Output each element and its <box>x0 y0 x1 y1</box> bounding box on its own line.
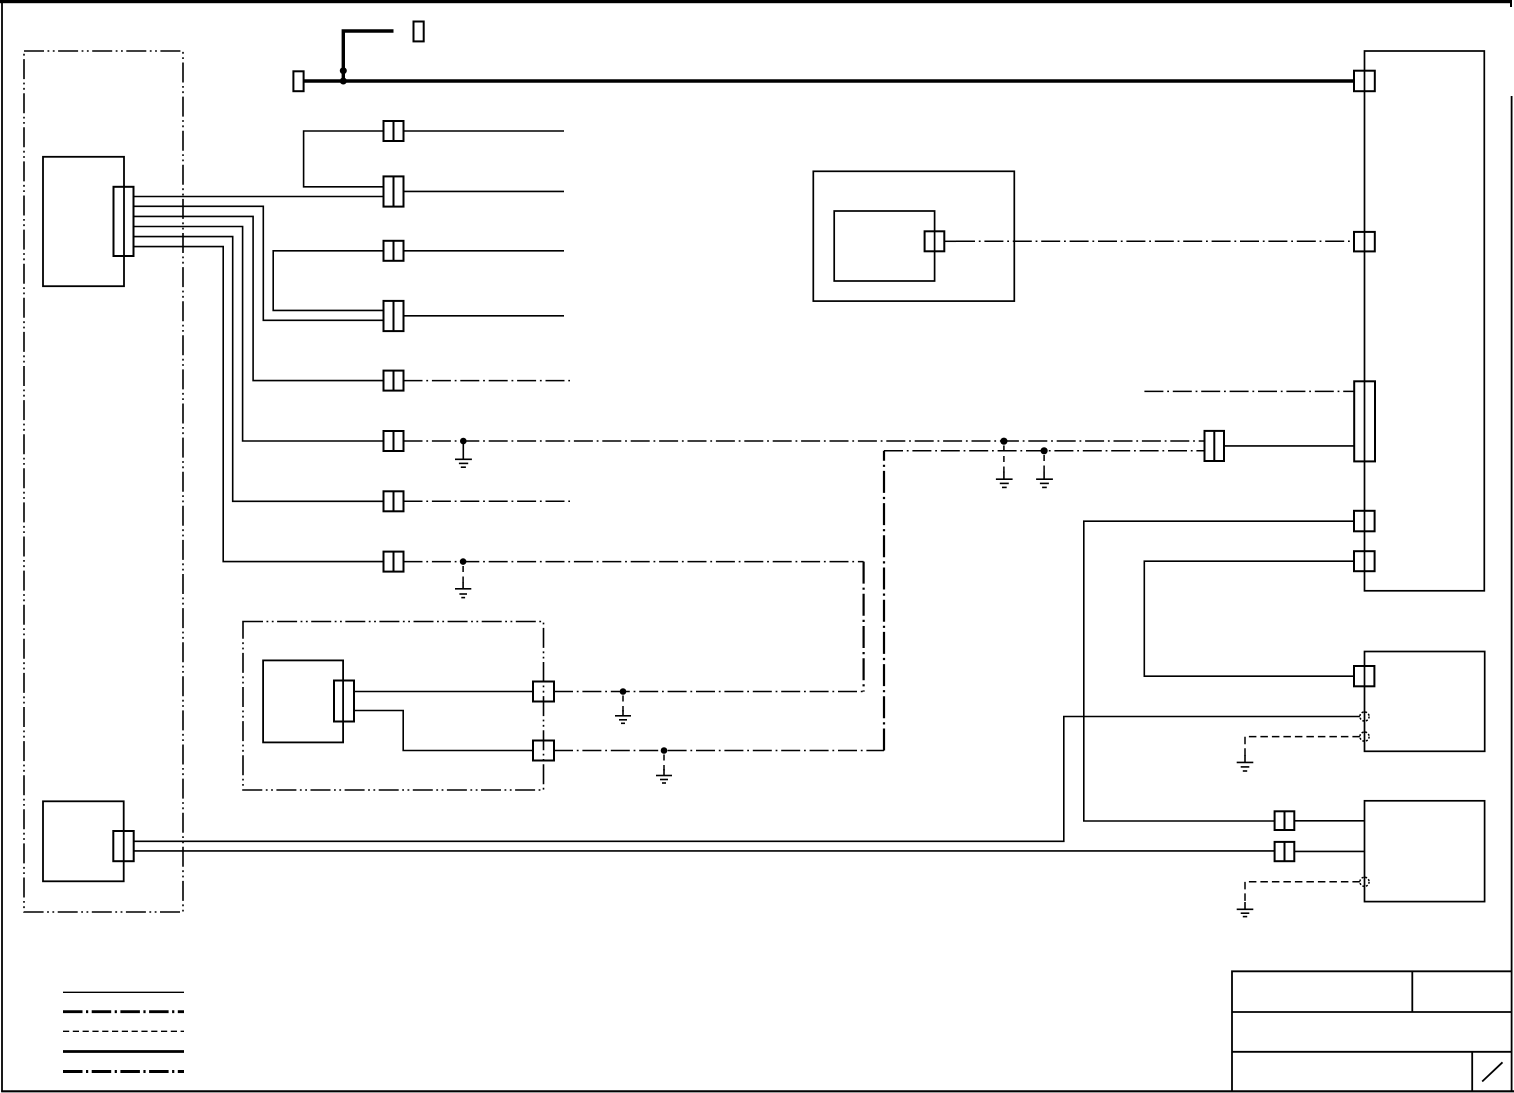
wire D-a ground lead (dashed) <box>1245 882 1360 904</box>
connector C9 <box>533 682 554 702</box>
connector D2 <box>1275 842 1295 861</box>
ground G7 <box>1237 755 1254 771</box>
legend dash-dot heavy sample <box>63 1010 184 1013</box>
legend dash-dot heavy sample 2 <box>63 1070 184 1073</box>
connector C2 <box>384 176 404 206</box>
wire D2 to box D <box>1294 850 1364 852</box>
terminal circle D-a <box>1360 877 1369 886</box>
title block diagonal slash <box>1482 1062 1502 1081</box>
wire M1 to box B (shield line) <box>956 240 1354 242</box>
wire U2 pin1 to C9 <box>354 691 533 693</box>
wire D1 to box D <box>1294 820 1364 822</box>
wire C-a to bottom-left unit <box>134 717 1360 842</box>
title block divider top row <box>1411 971 1413 1012</box>
wire C7 right stub (shield line) <box>404 500 571 502</box>
frame bottom border <box>1 1090 1514 1092</box>
wire J3 to CT tall connector <box>1224 445 1354 447</box>
wire C3 right stub <box>404 250 565 252</box>
legend solid thin sample <box>63 991 184 993</box>
node on C10 line <box>661 747 668 754</box>
connector CB1 (battery feed) <box>1354 71 1375 92</box>
connector CB3 <box>1354 511 1375 532</box>
title block outline <box>1232 971 1512 1091</box>
junction dot upper <box>340 67 347 74</box>
enclosure (dash-dot-dot box, sensor assembly) <box>243 622 544 791</box>
wire loop C1 to C2 <box>304 131 384 187</box>
title block divider bottom row <box>1471 1052 1473 1092</box>
legend solid thick sample <box>63 1050 184 1053</box>
wire bottom-left unit to D2 <box>134 850 1275 852</box>
wire C10 shield line to corner <box>554 750 884 752</box>
ground G2 (dashed lead) <box>455 566 471 598</box>
frame top border <box>0 0 1512 3</box>
connector on unit E <box>113 831 133 861</box>
connector CB4 <box>1354 551 1375 571</box>
wire U1 pin3 to C5 <box>134 216 384 380</box>
wire U1 pin2 to C4 <box>134 206 384 320</box>
connector on U1 <box>114 187 134 256</box>
speaker unit C <box>1365 652 1485 752</box>
connector C3 <box>384 241 404 261</box>
wire antenna shield line into CT <box>1144 390 1354 392</box>
wire U1 pin6 to C8 <box>134 247 384 562</box>
module M1 outer case <box>813 171 1014 301</box>
node on J3 lower line <box>1041 447 1048 454</box>
wire loop C3 to C4 <box>273 251 383 311</box>
node on C8 line <box>460 558 467 565</box>
frame right border <box>1511 96 1513 1091</box>
wire U1 pin5 to C7 <box>134 237 384 502</box>
wire C4 right stub <box>404 315 565 317</box>
SECTION: title block <box>1232 971 1512 1091</box>
connector CT (tall, shield+signal) <box>1354 381 1375 461</box>
node on J3 upper line <box>1000 438 1007 445</box>
title block row line 2 <box>1232 1051 1512 1053</box>
ground G1 <box>455 444 472 467</box>
wire CB4 to CC1 (down left loop) <box>1144 561 1354 676</box>
wire J3 lower shield line <box>884 450 1205 452</box>
connector CB2 (from module M1) <box>1354 232 1375 252</box>
wire C9 shield line to corner join <box>554 691 864 693</box>
ground G8 <box>1237 902 1254 917</box>
connector C6 <box>384 431 404 451</box>
terminal T2 <box>414 22 424 42</box>
connector C1 <box>384 121 404 141</box>
wire C2 right stub <box>404 190 565 192</box>
connector C7 <box>384 491 404 511</box>
wire battery bus (thick) <box>304 79 1355 82</box>
wire C-b ground lead (dashed) <box>1245 737 1360 757</box>
legend dashed sample <box>63 1030 184 1032</box>
connector C4 <box>384 301 404 331</box>
frame left border <box>1 3 3 1092</box>
wire CB3 to connector D1 (down left loop) <box>1084 521 1354 821</box>
terminal circle C-b <box>1360 732 1369 741</box>
ground G3 (dashed lead) <box>615 696 631 724</box>
terminal T1 <box>293 71 303 91</box>
node on C9 line <box>620 688 627 695</box>
wire C8 shield line to corner <box>404 561 864 563</box>
speaker unit D <box>1365 801 1485 902</box>
wire C1 right stub <box>404 130 565 132</box>
sensor unit U2 <box>263 660 343 742</box>
audio unit B <box>1365 51 1485 591</box>
connector J3 <box>1205 431 1225 461</box>
connector C10 <box>533 741 554 761</box>
connector C8 <box>384 552 404 572</box>
ground G4 (dashed lead) <box>996 446 1013 488</box>
wire U1 pin1 to C2 <box>134 196 384 198</box>
terminal circle C-a <box>1360 712 1369 721</box>
connector D1 <box>1275 811 1295 830</box>
wire fuse branch (thick) <box>343 31 393 81</box>
ground G6 (dashed lead) <box>656 755 672 784</box>
connector C5 <box>384 371 404 391</box>
frame top-right tick <box>1510 0 1512 7</box>
wire trunk vertical (C8 line down to C9 line) <box>862 562 864 692</box>
module M1 inner unit <box>834 211 934 281</box>
ground G5 (dashed lead) <box>1036 455 1053 487</box>
wire U1 pin4 to C6 <box>134 227 384 442</box>
node on C6 line <box>460 438 467 445</box>
connector on M1 <box>925 231 945 251</box>
amp unit E <box>43 801 124 881</box>
enclosure (dash-dot-dot box, left unit assembly) <box>24 51 183 912</box>
wire C5 right stub (shield line) <box>404 380 571 382</box>
wire trunk vertical (C10 line up to J3 line) <box>883 451 885 751</box>
wire M1 lead solid stub <box>944 240 956 242</box>
junction dot on bus <box>340 78 347 85</box>
wire U2 pin2 to C10 <box>354 711 533 751</box>
control unit U1 <box>43 157 124 286</box>
title block row line 1 <box>1232 1011 1512 1013</box>
connector CC1 <box>1354 666 1374 686</box>
connector on U2 <box>334 681 354 722</box>
wire C6 shield line to J3 <box>404 440 1205 442</box>
